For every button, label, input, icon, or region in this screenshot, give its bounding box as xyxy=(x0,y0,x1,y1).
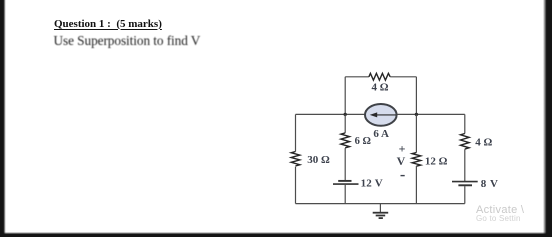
right black screen border bar xyxy=(543,0,552,237)
wire: right branch middle xyxy=(464,149,466,181)
svg-text:12 Ω: 12 Ω xyxy=(425,155,448,167)
wire: 6ohm branch middle xyxy=(344,148,346,180)
wire: left branch vertical upper xyxy=(295,114,297,151)
wire: left branch vertical lower xyxy=(295,167,297,204)
current source I1 6A ellipse xyxy=(365,104,397,126)
wire: top loop left vertical xyxy=(344,77,346,115)
wire: 6ohm branch upper xyxy=(344,114,346,132)
wire: 12ohm branch upper xyxy=(415,114,417,152)
svg-text:6 A: 6 A xyxy=(373,128,389,140)
wire: top loop right vertical xyxy=(415,77,417,115)
svg-text:12 V: 12 V xyxy=(361,177,383,189)
bottom black screen border bar xyxy=(0,232,552,237)
node junction dot left xyxy=(344,113,347,116)
svg-text:30 Ω: 30 Ω xyxy=(307,154,330,166)
svg-text:4 Ω: 4 Ω xyxy=(372,82,389,94)
Activate Windows watermark line 2 xyxy=(476,214,521,223)
wire: top horizontal right segment xyxy=(390,76,416,78)
question body text xyxy=(54,33,201,49)
wire: top horizontal left segment xyxy=(345,76,369,78)
wire: bottom horizontal xyxy=(296,203,465,205)
left black screen border bar xyxy=(0,0,6,237)
question title text xyxy=(54,18,162,30)
resistor R 30ohm zigzag xyxy=(291,152,300,166)
battery V2 8V plates xyxy=(452,182,478,186)
svg-text:V: V xyxy=(397,154,406,168)
resistor R 6ohm zigzag xyxy=(341,133,350,148)
svg-text:4 Ω: 4 Ω xyxy=(475,137,492,149)
battery V1 12V plates xyxy=(333,181,359,184)
wire: right branch lower xyxy=(464,186,466,204)
wire: 12ohm branch lower xyxy=(415,166,417,204)
svg-text:8 V: 8 V xyxy=(481,178,499,190)
resistor R-top 4ohm zigzag xyxy=(369,73,390,80)
label minus sign of V xyxy=(401,175,405,177)
ground symbol xyxy=(373,204,389,219)
svg-text:6 Ω: 6 Ω xyxy=(355,136,371,147)
node junction dot right xyxy=(415,113,418,116)
resistor R 12ohm zigzag xyxy=(412,153,421,167)
wire: right branch upper xyxy=(464,114,466,133)
wire: 6ohm branch lower xyxy=(344,185,346,204)
wire: middle horizontal xyxy=(296,113,465,115)
Activate Windows watermark line 1 xyxy=(476,204,524,216)
resistor R 4ohm right zigzag xyxy=(461,134,470,150)
